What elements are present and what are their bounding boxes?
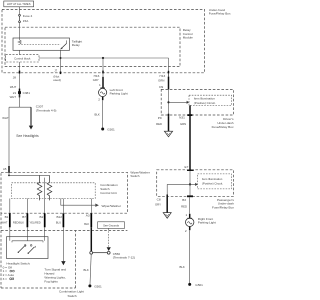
svg-text:HOT AT ALL TIMES: HOT AT ALL TIMES bbox=[7, 2, 31, 6]
label: taillight relay bbox=[72, 39, 82, 46]
svg-text:WHT: WHT bbox=[2, 116, 9, 120]
svg-text:(Terminals 7-12): (Terminals 7-12) bbox=[113, 256, 135, 260]
item illumination circuit box (driver) bbox=[189, 95, 232, 105]
junction node bbox=[167, 101, 169, 103]
svg-text:B3: B3 bbox=[182, 198, 186, 202]
svg-text:Fog lights: Fog lights bbox=[44, 280, 58, 284]
pin tick H13 bbox=[168, 71, 170, 74]
svg-text:G501: G501 bbox=[195, 283, 203, 287]
wire right lamp to ground bbox=[180, 227, 190, 284]
label: relay control module bbox=[183, 28, 193, 40]
svg-text:Fuse/Relay Box: Fuse/Relay Box bbox=[209, 12, 231, 16]
svg-text:WHT: WHT bbox=[10, 95, 17, 99]
svg-text:GRY: GRY bbox=[155, 202, 161, 206]
wire C550 to ground bbox=[84, 254, 92, 284]
pin B1 bbox=[2, 213, 10, 227]
svg-text:used): used) bbox=[53, 78, 61, 82]
resistor 2 bbox=[47, 175, 52, 200]
wire A5 into control unit bbox=[8, 173, 10, 176]
under-hood fuse/relay box (dashed) bbox=[2, 9, 205, 72]
junction of relay output and bus bbox=[60, 57, 62, 59]
svg-text:J7: J7 bbox=[54, 68, 57, 72]
label: driver's under-dash fuse/relay box bbox=[212, 117, 234, 129]
bold wire P9 to off-page triangle bbox=[168, 116, 170, 131]
pin P9 bbox=[156, 114, 168, 126]
label: wiper/washer switch (outside right) bbox=[130, 170, 149, 178]
pin C8 bbox=[155, 195, 167, 207]
wire bus down to left front parking light bbox=[102, 58, 104, 77]
svg-text:Item Illumination: Item Illumination bbox=[202, 177, 223, 181]
pin N31 bbox=[179, 114, 192, 126]
svg-text:N31: N31 bbox=[179, 116, 185, 120]
svg-text:Switch: Switch bbox=[130, 174, 139, 178]
wire control unit to pin B7 bbox=[26, 199, 28, 214]
left branch wire down to combination switch bbox=[2, 107, 9, 166]
wire control block down to J8 bbox=[19, 62, 21, 71]
svg-text:BLK: BLK bbox=[84, 268, 89, 272]
svg-text:Parking Light: Parking Light bbox=[110, 92, 128, 96]
pin H16 bbox=[93, 71, 103, 83]
svg-text:B2: B2 bbox=[40, 215, 44, 219]
pin J7 (not used) bbox=[53, 68, 61, 82]
pin B12 bbox=[56, 213, 64, 227]
svg-text:2: 2 bbox=[98, 98, 100, 102]
control block bbox=[6, 55, 39, 62]
off-page triangle (passenger) bbox=[163, 213, 171, 219]
wire lamp to ground BLK bbox=[95, 97, 103, 128]
bold wire C8 to off-page triangle bbox=[166, 198, 168, 213]
bold wire N31 to E7 bbox=[189, 115, 191, 170]
combination light switch box (dashed) bbox=[1, 172, 127, 288]
bold wire segment to lamp bbox=[102, 77, 104, 88]
wire control unit to pin A3 bbox=[90, 199, 92, 214]
label: left front parking light bbox=[110, 88, 128, 96]
label: combination switch control unit bbox=[100, 183, 118, 195]
bold wire H13 to D9 bbox=[168, 77, 170, 90]
svg-text:GRN: GRN bbox=[180, 122, 186, 126]
svg-text:Combination Light: Combination Light bbox=[59, 290, 84, 294]
junction to resistor feed bbox=[8, 175, 10, 177]
svg-text:BLK: BLK bbox=[95, 113, 100, 117]
label: under-hood fuse/relay box bbox=[209, 8, 231, 16]
bold wire illumination to N31 bbox=[189, 105, 191, 115]
pin J8 bbox=[13, 71, 20, 80]
connector C381 bbox=[13, 89, 31, 98]
resistor 1 bbox=[37, 175, 42, 200]
relay control module box (dashed) bbox=[5, 27, 180, 66]
wire from hot box to fuse bbox=[19, 7, 21, 15]
branch to illumination box with arrow bbox=[167, 183, 195, 185]
ground G501 middle bbox=[88, 284, 102, 288]
item illumination circuit box (passenger) bbox=[198, 174, 232, 189]
svg-text:Relay: Relay bbox=[72, 43, 80, 47]
driver's under-dash fuse/relay box (dashed) bbox=[161, 89, 233, 115]
svg-text:C8: C8 bbox=[157, 197, 161, 201]
svg-text:See Grounds: See Grounds bbox=[103, 224, 119, 228]
passenger's under-dash fuse/relay box (dashed) bbox=[157, 170, 234, 197]
branch arrow to C307 see headlights bbox=[16, 105, 56, 138]
svg-text:(Positive) Circuit.: (Positive) Circuit. bbox=[202, 182, 223, 186]
svg-text:Parking Light: Parking Light bbox=[198, 221, 216, 225]
svg-text:J8: J8 bbox=[13, 76, 17, 80]
svg-text:Wiper/Washer: Wiper/Washer bbox=[102, 204, 121, 208]
svg-text:3 =: 3 = bbox=[3, 277, 8, 281]
svg-text:WHT: WHT bbox=[2, 221, 8, 225]
bold wire into right lamp pin 1 bbox=[189, 214, 191, 218]
label: passenger's under-dash fuse/relay box bbox=[212, 198, 234, 210]
svg-text:G301: G301 bbox=[107, 127, 115, 131]
wire control unit to pin B2 bbox=[44, 178, 46, 214]
wire B12 to turn signal arrow bbox=[62, 227, 64, 261]
left front parking light bbox=[99, 88, 107, 97]
connector C550 bracket bbox=[90, 251, 135, 259]
wire B3 to right lamp bbox=[189, 197, 191, 214]
wiper/washer internal arrow bbox=[61, 199, 121, 208]
svg-text:A5: A5 bbox=[3, 167, 7, 171]
pin B3 bbox=[181, 195, 193, 208]
wire relay to control block bbox=[19, 50, 21, 54]
wire control unit to pin B1 bbox=[9, 199, 11, 214]
bold wire A3 to C550 bbox=[90, 227, 92, 251]
left wire WHT below J8 bbox=[10, 74, 20, 91]
wire control unit to pin B12 bbox=[62, 199, 64, 214]
svg-text:D9: D9 bbox=[159, 85, 163, 89]
svg-text:YEL/RED: YEL/RED bbox=[30, 221, 41, 225]
svg-text:RED: RED bbox=[156, 122, 162, 126]
svg-text:15A: 15A bbox=[23, 19, 29, 23]
svg-text:Control Unit: Control Unit bbox=[100, 191, 116, 195]
see ground note box bbox=[98, 222, 125, 229]
svg-text:G501: G501 bbox=[94, 284, 102, 288]
svg-text:GRY: GRY bbox=[93, 78, 99, 82]
pin A5 into combination light switch bbox=[3, 166, 9, 173]
pin A3 bbox=[84, 213, 91, 227]
wire bus down to H13 bbox=[168, 58, 170, 77]
pin B7 bbox=[13, 213, 28, 227]
feed line to resistors bbox=[9, 174, 50, 176]
svg-text:RED/BLK: RED/BLK bbox=[13, 221, 24, 225]
junction tee bbox=[9, 106, 31, 108]
pin H13 bbox=[158, 74, 165, 82]
svg-text:See Headlights: See Headlights bbox=[16, 134, 39, 138]
svg-text:B7: B7 bbox=[22, 215, 26, 219]
ground G301 bbox=[101, 127, 115, 131]
wire inside driver's box bbox=[168, 89, 170, 115]
taillight relay box bbox=[13, 38, 70, 50]
right front parking light bbox=[186, 218, 194, 226]
turn signal arrow bbox=[44, 261, 66, 284]
svg-text:Module: Module bbox=[183, 36, 193, 40]
svg-text:(Positive) Circuit.: (Positive) Circuit. bbox=[194, 101, 216, 105]
svg-text:GRN: GRN bbox=[158, 79, 164, 83]
dashed arrow to C550 bbox=[107, 228, 111, 251]
svg-text:B1: B1 bbox=[5, 215, 9, 219]
wire fuse to relay bbox=[19, 23, 21, 38]
wire pin B7 to headlight switch bbox=[26, 227, 28, 236]
svg-text:B12: B12 bbox=[56, 215, 62, 219]
svg-text:1: 1 bbox=[99, 83, 101, 87]
pin E7 bbox=[185, 165, 194, 171]
wire pin B2 to headlight switch bbox=[44, 227, 46, 236]
svg-text:RED: RED bbox=[181, 204, 187, 208]
svg-text:BLK: BLK bbox=[180, 265, 185, 269]
svg-text:1: 1 bbox=[185, 213, 187, 217]
label: combination light switch bbox=[59, 290, 84, 299]
wire pin B1 to headlight switch bbox=[9, 227, 11, 236]
ground G501 right bbox=[188, 283, 203, 287]
svg-text:Fuse/Relay Box: Fuse/Relay Box bbox=[212, 125, 234, 129]
svg-text:E7: E7 bbox=[185, 165, 189, 169]
svg-text:WHT: WHT bbox=[10, 85, 17, 89]
branch wire down to pin C8 bbox=[166, 184, 168, 194]
off-page triangle bbox=[164, 131, 172, 137]
svg-text:Fuse/Relay Box: Fuse/Relay Box bbox=[212, 206, 234, 210]
svg-text:2: 2 bbox=[185, 229, 187, 233]
headlight switch detail box bbox=[7, 237, 49, 259]
svg-text:(Terminals 4-9): (Terminals 4-9) bbox=[36, 108, 57, 112]
svg-text:C381: C381 bbox=[23, 91, 31, 95]
svg-text:BLK: BLK bbox=[84, 222, 89, 226]
svg-text:A3: A3 bbox=[86, 214, 90, 218]
svg-text:P9: P9 bbox=[158, 116, 162, 120]
node on bus for left parking light bbox=[102, 57, 104, 59]
wire inside passenger box bbox=[189, 171, 191, 196]
svg-text:Control block: Control block bbox=[14, 57, 31, 61]
wire node to illumination box with arrow bbox=[169, 101, 187, 103]
svg-text:BLU: BLU bbox=[56, 221, 61, 225]
svg-text:Fuse 4: Fuse 4 bbox=[23, 14, 33, 18]
combination switch control unit box (dashed) bbox=[12, 183, 96, 199]
wire relay output down through bus to J7 bbox=[60, 50, 62, 71]
svg-text:Switch: Switch bbox=[68, 294, 77, 298]
pin B2 bbox=[30, 213, 45, 227]
headlight switch legend bbox=[3, 261, 31, 281]
bus wire to H13 bbox=[39, 57, 169, 59]
fuse 4 bbox=[19, 14, 33, 23]
hot-at-all-times box bbox=[4, 1, 34, 7]
label: right front parking light bbox=[198, 217, 216, 225]
junction node bbox=[189, 183, 191, 185]
wire below C381 bbox=[10, 94, 20, 107]
wire H13 below box bbox=[168, 73, 170, 76]
